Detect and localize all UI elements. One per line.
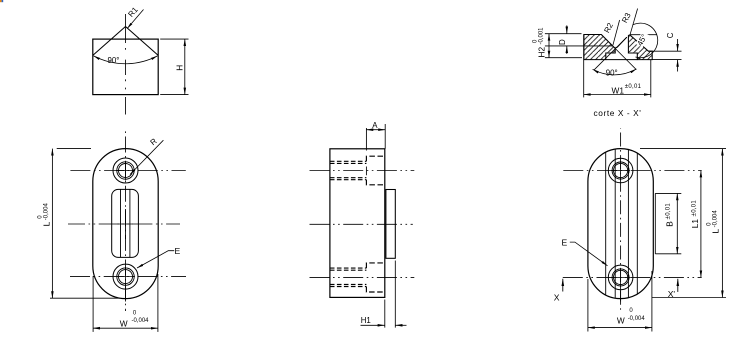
section R2 leader [613, 20, 620, 45]
view3 body outline [330, 149, 385, 298]
dimension C arrow top [677, 39, 679, 51]
dimension H2 label [533, 27, 547, 58]
view4 slot left line [614, 149, 616, 297]
dimension W(right) label [617, 308, 645, 326]
section left solid hatched region [584, 35, 615, 60]
view2 bottom hole crosshair [116, 267, 135, 287]
svg-text:W: W [617, 316, 625, 326]
section 45-degree label [635, 31, 650, 48]
dimension B extension top [655, 192, 681, 194]
view1 R1 leader [127, 10, 143, 29]
section marker X stroke [562, 279, 564, 292]
section 45-degree reference line [631, 34, 657, 36]
dimension C arrow bottom [677, 60, 679, 72]
section bottom edge across counterbore [606, 59, 638, 61]
svg-text:-0,004: -0,004 [132, 318, 150, 324]
dimension C extension top [648, 50, 681, 52]
view1 V-point right flank [126, 27, 159, 56]
view2 slot outline [112, 189, 139, 257]
svg-text:W: W [120, 318, 128, 328]
view3 top hole centerline row [310, 170, 415, 172]
dimension A extension left [365, 128, 367, 175]
dimension H extension bottom [160, 94, 188, 96]
dimension D V-bottom extension line [545, 45, 613, 47]
dimension H1 extension right [394, 261, 396, 328]
view2 bottom hole inner circle [119, 270, 133, 284]
view2 vertical centerline [125, 131, 127, 312]
svg-text:E: E [175, 246, 181, 256]
view2 bottom hole outer circle [117, 268, 134, 285]
view3 top counterbore hidden outline [366, 156, 384, 185]
dimension C extension bottom [652, 59, 681, 61]
svg-text:-0,004: -0,004 [628, 316, 646, 322]
view2 middle horizontal centerline row [68, 223, 180, 225]
dimension L1 line [700, 171, 702, 278]
section 45-degree dimension arc [633, 23, 658, 58]
view3 top hole hidden line lower inner [330, 177, 367, 179]
dimension H extension top [160, 38, 188, 40]
svg-text:H: H [174, 65, 184, 71]
svg-text:L1: L1 [690, 219, 700, 229]
dimension W1 label [612, 84, 642, 96]
view2 top hole crosshair [116, 161, 135, 181]
view4 vertical centerline [620, 129, 622, 313]
dimension H1 extension left [384, 300, 386, 328]
view3 bottom counterbore hidden outline [366, 263, 384, 292]
dimension W(left) line [93, 327, 158, 329]
svg-text:B: B [665, 221, 675, 227]
dimension W(right) line [588, 327, 652, 329]
view4 stadium outline [588, 149, 653, 299]
section R2 label [602, 21, 615, 34]
dimension L(left) extension top [57, 148, 91, 150]
view4 vertical centerline solid segment below bottom hole [620, 287, 622, 301]
dimension W(right) extension left [587, 279, 589, 332]
view2 top hole outer circle [117, 162, 134, 179]
svg-text:±0,01: ±0,01 [625, 84, 642, 90]
dimension W(left) extension left [92, 276, 94, 332]
dimension B extension bottom [655, 253, 681, 255]
dimension H2 extension bottom [545, 57, 582, 59]
dimension W1 extension left [583, 35, 585, 98]
dimension W(left) label [120, 310, 149, 328]
view2 top hole inner circle [119, 164, 133, 178]
dimension B line [676, 193, 678, 253]
dimension H1 arrow right [396, 324, 407, 326]
view3 bottom hole hidden line upper inner [330, 269, 367, 271]
view3 top hole hidden line lower outer [330, 179, 367, 181]
dimension D arrow top [566, 25, 568, 33]
svg-text:X: X [554, 292, 560, 302]
corner artifact speck [0, 0, 3, 2]
svg-text:W1: W1 [612, 86, 625, 96]
view3 bottom hole hidden line lower inner [330, 284, 367, 286]
svg-text:0: 0 [133, 310, 137, 316]
section right solid hatched region [628, 35, 652, 60]
view3 top hole hidden line upper inner [330, 162, 367, 164]
dimension W1 extension right [650, 60, 652, 98]
view4 bottom hole inner circle [614, 270, 628, 284]
dimension D label [558, 39, 567, 45]
section R3 leader [630, 9, 638, 36]
dimension L(left) line [51, 149, 53, 299]
svg-text:90°: 90° [606, 69, 618, 78]
svg-text:L: L [710, 229, 720, 234]
section V left flank extension line [601, 35, 636, 70]
dimension A extension right [384, 124, 386, 149]
view4 bottom hole outer circle [612, 269, 629, 286]
view3 bottom hole hidden line lower outer [330, 286, 367, 288]
svg-text:D: D [558, 39, 567, 45]
dimension C label [666, 32, 675, 38]
view2 vertical centerline solid segment below bottom hole [125, 286, 127, 301]
svg-text:R: R [148, 136, 158, 147]
svg-text:-0,001: -0,001 [538, 27, 544, 45]
view4 top hole inner circle [614, 163, 628, 177]
view1 V-point left flank [93, 27, 126, 56]
view2 slot center crosshair [118, 209, 134, 239]
view4 top hole outer circle [612, 162, 629, 179]
view3 bottom hole centerline row [310, 276, 415, 278]
dimension H2 extension top [545, 33, 582, 35]
view2 R leader [130, 140, 163, 174]
view1 block outline [93, 39, 158, 95]
view1 90-degree dimension arc [94, 56, 158, 64]
dimension H line [184, 39, 186, 95]
view3 bottom hole hidden line upper outer [330, 267, 367, 269]
svg-text:H1: H1 [361, 316, 371, 325]
section R3 label [620, 11, 633, 25]
view2 slot inner right line [129, 190, 131, 258]
section marker X-prime stroke [677, 279, 679, 292]
svg-text:C: C [666, 32, 675, 38]
svg-text:E: E [562, 238, 568, 248]
view4 slot right line [627, 150, 629, 298]
svg-text:corte X - X': corte X - X' [594, 108, 642, 118]
dimension L(right) extension bottom [652, 297, 726, 299]
view2 bottom hole horizontal centerline row [69, 276, 186, 278]
view4 channel left line [605, 153, 607, 295]
view2 slot inner left line [120, 190, 122, 258]
svg-text:0: 0 [629, 308, 633, 314]
svg-text:90°: 90° [108, 56, 120, 65]
dimension H1 arrow left [361, 324, 385, 326]
view3 top hole hidden line upper outer [330, 160, 367, 162]
view4 bottom hole counterbore circle [608, 265, 633, 290]
view4 section line row through bottom hole [563, 276, 702, 278]
view4 channel right line [636, 153, 638, 294]
dimension W(left) extension right [157, 274, 159, 332]
dimension D arrow bottom [566, 46, 568, 54]
svg-text:R3: R3 [620, 11, 633, 25]
view3 middle centerline row [310, 223, 413, 225]
svg-text:R1: R1 [126, 5, 139, 19]
view4 top hole crosshair [611, 161, 630, 180]
dimension W1 line [584, 94, 651, 96]
view3 boss plate outline [386, 190, 395, 259]
section 90-degree dimension arc [593, 69, 637, 75]
view4 top hole counterbore circle [608, 158, 633, 183]
svg-text:A: A [372, 121, 378, 130]
view2 top hole counterbore circle [113, 158, 138, 183]
dimension L(right) label [707, 210, 721, 234]
view2 bottom hole counterbore circle [113, 264, 138, 289]
view4 E leader [570, 242, 608, 266]
dimension H2 line [548, 34, 550, 58]
view2 E leader [137, 251, 174, 268]
dimension L(right) extension top [640, 148, 726, 150]
svg-text:-0,004: -0,004 [43, 203, 49, 221]
dimension B label [665, 203, 675, 227]
svg-text:H2: H2 [537, 47, 547, 58]
view2 top hole horizontal centerline row [69, 170, 185, 172]
dimension L(right) line [721, 149, 723, 298]
svg-text:±0,01: ±0,01 [666, 203, 672, 220]
svg-text:R2: R2 [602, 21, 615, 34]
dimension L(left) extension bottom [50, 297, 120, 299]
section V right flank extension line [594, 37, 627, 70]
dimension W(right) extension right [651, 271, 653, 332]
view2 stadium outline [93, 149, 158, 299]
svg-text:-0,004: -0,004 [712, 210, 718, 228]
view4 bottom hole crosshair [611, 268, 630, 287]
dimension L1 label [690, 200, 700, 229]
svg-text:±0,01: ±0,01 [691, 200, 697, 217]
section V right flank line [616, 37, 627, 47]
svg-text:L: L [41, 221, 51, 226]
dimension B feature line [654, 193, 656, 253]
dimension L(left) label [38, 203, 52, 227]
dimension A line [366, 129, 385, 131]
view4 top hole centerline row [563, 170, 701, 172]
view1 vertical centerline [125, 14, 127, 115]
